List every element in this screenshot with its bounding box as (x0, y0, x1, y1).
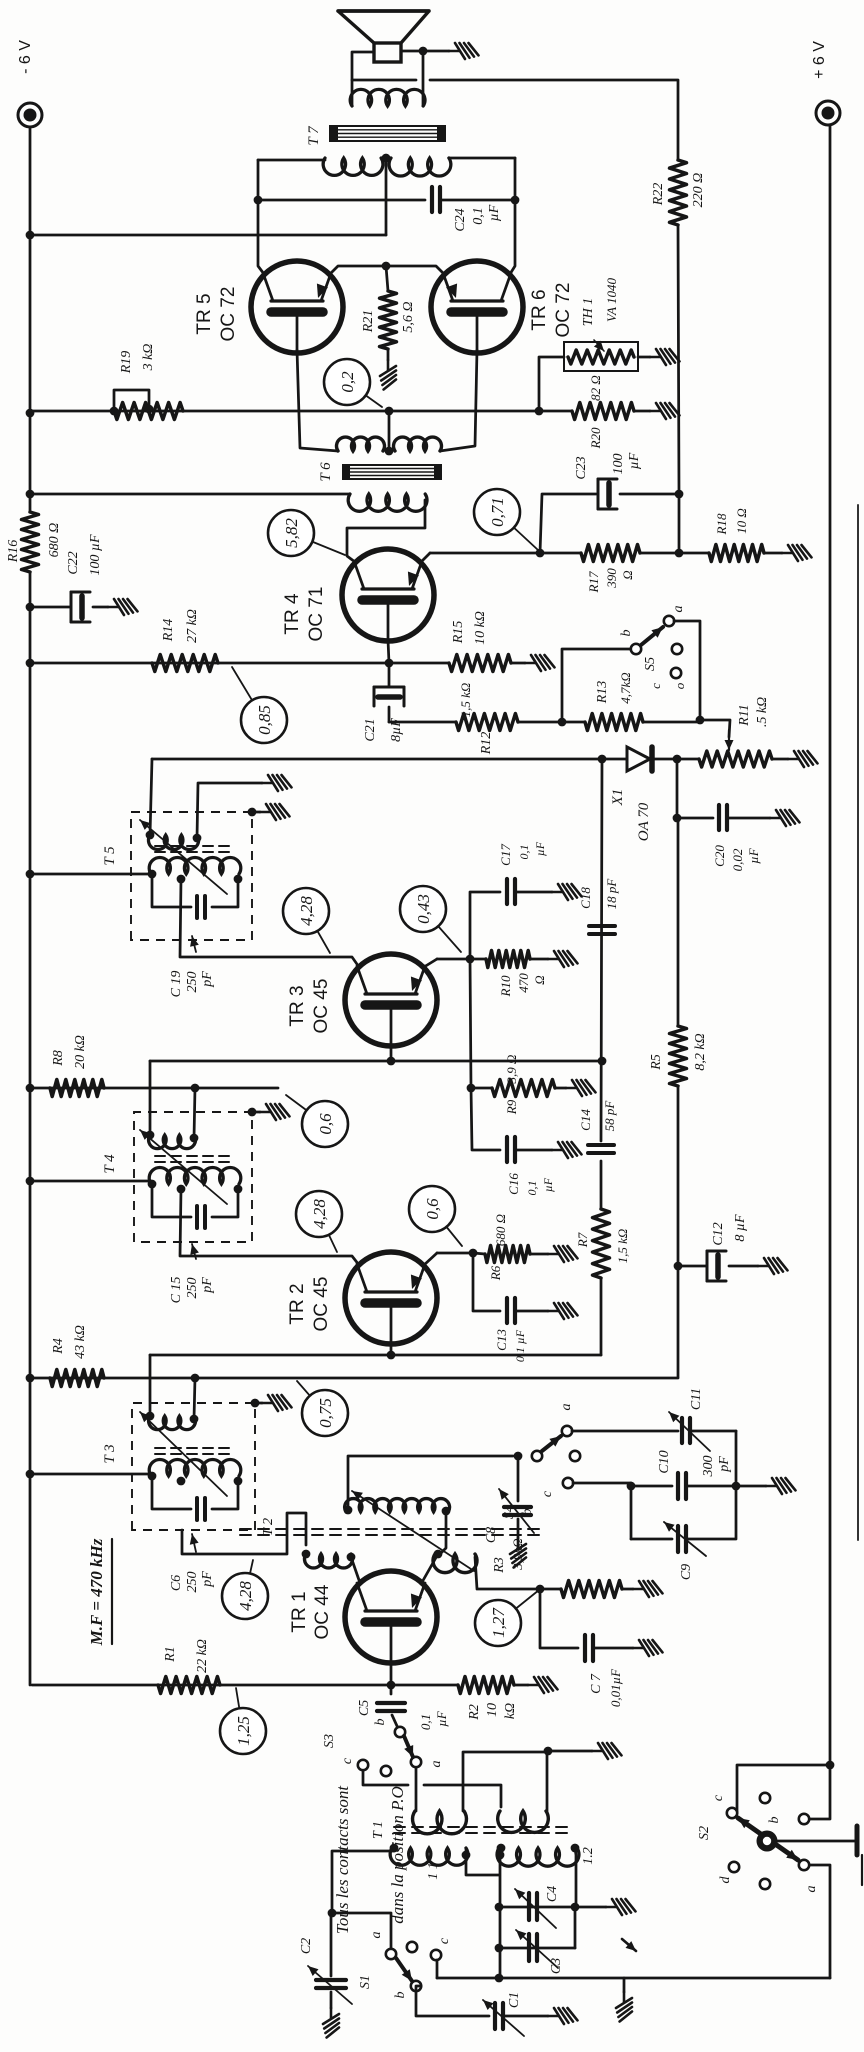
ground on tuner common line (623, 1978, 626, 1992)
svg-text:R6: R6 (488, 1265, 503, 1281)
svg-text:10 kΩ: 10 kΩ (473, 611, 488, 645)
svg-text:C21: C21 (363, 718, 378, 741)
svg-text:R4: R4 (51, 1338, 66, 1355)
svg-text:1.2: 1.2 (581, 1847, 596, 1865)
TR2 base lead (390, 1344, 393, 1355)
transistor TR3 OC45 (345, 954, 437, 1046)
svg-text:kΩ: kΩ (503, 1703, 518, 1719)
wire S3-c down to T1 lower winding (with hop) (363, 1770, 408, 1785)
svg-text:a: a (559, 1404, 574, 1411)
svg-text:82 Ω: 82 Ω (588, 375, 603, 401)
svg-text:10: 10 (485, 1703, 500, 1717)
wire -6V rail to T3 primary (30, 1473, 151, 1476)
T6 secondary upper half (337, 437, 385, 451)
svg-text:C16: C16 (506, 1173, 521, 1195)
capacitor C7 0.01uF (540, 1589, 578, 1648)
svg-text:OC 72: OC 72 (218, 287, 239, 342)
svg-text:5,6 Ω: 5,6 Ω (401, 301, 416, 332)
svg-text:C11: C11 (689, 1388, 704, 1410)
svg-text:T 6: T 6 (318, 462, 334, 482)
svg-text:c: c (648, 683, 663, 689)
svg-text:C3: C3 (549, 1958, 564, 1974)
TR1 collector diagonal to T2 winding (351, 1557, 360, 1583)
svg-text:C9: C9 (679, 1564, 694, 1580)
T3 primary winding (149, 1459, 241, 1476)
svg-text:8 µF: 8 µF (733, 1214, 748, 1242)
trimmer C4 row (499, 1906, 606, 1909)
svg-text:R16: R16 (6, 540, 21, 564)
svg-text:b: b (393, 1992, 408, 1999)
T6 secondary bottom to TR6 base (440, 350, 477, 451)
R11 wiper arrow (728, 730, 730, 750)
svg-text:OC 72: OC 72 (553, 283, 574, 338)
TR6 emitter diagonal (386, 266, 444, 274)
svg-text:250: 250 (185, 972, 200, 993)
meter 0,75 (297, 1381, 325, 1413)
TR4 base bus from rail (32, 662, 389, 665)
svg-text:C4: C4 (545, 1886, 560, 1902)
TR6 collector wire to T7 (510, 158, 515, 274)
svg-text:c: c (437, 1937, 452, 1944)
T5 tuning capacitor C19 (152, 874, 191, 907)
wire T1 lower winding to ground join (547, 1751, 548, 1811)
svg-text:TR 6: TR 6 (529, 289, 550, 330)
svg-text:C2: C2 (299, 1938, 314, 1954)
svg-text:10 Ω: 10 Ω (734, 508, 749, 534)
ground for T1 coupling windings (548, 1750, 592, 1753)
svg-text:3 kΩ: 3 kΩ (141, 344, 156, 372)
capacitor C22 100uF rail decoupling (30, 606, 70, 609)
trimmer C3 row (499, 1947, 575, 1950)
svg-text:R22: R22 (651, 183, 666, 207)
svg-text:C23: C23 (574, 456, 589, 479)
S5-a wire to R13 junction (674, 621, 700, 720)
wire S4-a to C11 (572, 1430, 678, 1433)
T4 primary winding (149, 1167, 241, 1184)
T7 centre tap to -6V rail (385, 158, 388, 235)
T7 primary upper half (323, 158, 383, 175)
resistor R12 1.5k (456, 714, 518, 731)
T5 shield ground (248, 808, 257, 817)
svg-text:µF: µF (434, 1710, 449, 1726)
svg-text:T 4: T 4 (102, 1154, 118, 1174)
TR2 base line vertical (from T3 secondary) (150, 1354, 601, 1357)
svg-text:pF: pF (200, 971, 215, 988)
meter 4,28 TR1 collector (245, 1560, 253, 1596)
svg-text:c: c (711, 1794, 726, 1801)
svg-text:R14: R14 (161, 619, 176, 643)
svg-text:VA 1040: VA 1040 (604, 278, 619, 322)
capacitor C13 0.1uF (473, 1253, 500, 1311)
IF transformer T3 box (132, 1403, 255, 1530)
switch S2 wire to +6V rail (737, 1765, 830, 1813)
AGC bus (R4/R5) (32, 1377, 678, 1380)
svg-text:0,75: 0,75 (316, 1398, 335, 1428)
resistor R3 3.9k (561, 1581, 622, 1598)
svg-text:TR 2: TR 2 (287, 1283, 308, 1324)
svg-text:58 pF: 58 pF (602, 1100, 617, 1132)
T4 tuning capacitor C15 (152, 1184, 191, 1217)
AGC take-off C20 (676, 759, 679, 818)
svg-text:C1: C1 (507, 1992, 522, 2008)
svg-text:C6: C6 (169, 1575, 184, 1591)
T3 secondary top to TR2 base line (149, 1355, 152, 1416)
svg-text:d: d (718, 1876, 733, 1884)
wire T1 1.1 top to C2/S1 node (332, 1848, 394, 1913)
svg-text:o: o (672, 682, 687, 689)
capacitor C5 0.1uF to S3 (390, 1685, 393, 1694)
diode X1 OA70 (627, 747, 650, 771)
svg-text:R7: R7 (575, 1232, 590, 1248)
capacitor C16 0.1uF (471, 1088, 500, 1150)
svg-text:S5: S5 (643, 657, 658, 671)
capacitor C17 0.1uF emitter bypass (470, 892, 500, 959)
T2 feedback winding (433, 1554, 477, 1573)
switch S5 (631, 644, 641, 654)
T5 secondary top to detector line (150, 759, 152, 835)
power rail -6V (top) (29, 572, 32, 1685)
svg-text:C22: C22 (66, 551, 81, 574)
T3 secondary bottom to AGC line (194, 1378, 195, 1419)
svg-text:3,9 Ω: 3,9 Ω (504, 1055, 519, 1085)
svg-text:T 1: T 1 (371, 1821, 386, 1839)
svg-text:Ω: Ω (620, 570, 635, 579)
TR4 base lead (388, 640, 389, 663)
svg-text:18 pF: 18 pF (604, 878, 619, 910)
svg-text:R20: R20 (588, 427, 603, 449)
resistor R10 470 (emitter) (486, 951, 530, 968)
svg-text:a: a (671, 606, 686, 613)
svg-text:µF: µF (487, 204, 502, 221)
T3 core (155, 1453, 232, 1455)
wire -6V rail to T5 primary (30, 873, 151, 876)
TR4 emitter line (421, 553, 430, 562)
resistor R13 4.7k (585, 714, 643, 731)
wire S3-a to T1 upper winding (415, 1766, 418, 1811)
svg-text:b: b (767, 1817, 782, 1824)
svg-text:b: b (619, 630, 634, 637)
wire 1.2 top to tuner common (499, 1855, 502, 1978)
svg-text:+ 6 V: + 6 V (811, 41, 828, 79)
TR5 emitter diagonal (330, 266, 386, 274)
driver transformer T6 core (343, 465, 441, 479)
svg-text:0,6: 0,6 (316, 1113, 335, 1135)
svg-text:0,1: 0,1 (517, 845, 531, 860)
svg-text:.5 kΩ: .5 kΩ (755, 697, 770, 727)
svg-text:0,6: 0,6 (423, 1198, 442, 1220)
svg-text:C13: C13 (494, 1329, 509, 1351)
resistor R7 1.5k (AGC filter) (593, 1209, 610, 1278)
T7 primary lower half (389, 158, 451, 176)
svg-text:1,5 kΩ: 1,5 kΩ (615, 1229, 630, 1264)
svg-text:C 19: C 19 (169, 971, 184, 998)
svg-text:R18: R18 (714, 513, 729, 535)
svg-text:R5: R5 (649, 1054, 664, 1071)
resistor R6 680ohm (emitter) (485, 1246, 530, 1263)
svg-text:22 kΩ: 22 kΩ (195, 1639, 210, 1673)
svg-text:T 5: T 5 (102, 846, 118, 866)
meter 0,43 TR3 emitter (423, 909, 461, 952)
resistor R1 22k (158, 1677, 220, 1694)
svg-text:T 2: T 2 (261, 1518, 276, 1536)
svg-text:470: 470 (516, 973, 531, 993)
capacitor C21 8uF coupling (389, 721, 456, 724)
wire -6V rail to T6 primary (30, 493, 350, 496)
svg-text:C 15: C 15 (169, 1277, 184, 1304)
svg-text:390: 390 (604, 568, 619, 589)
TR1 base lead to bias line (390, 1663, 393, 1685)
svg-text:R15: R15 (451, 621, 466, 645)
R19 preset link (114, 390, 149, 411)
resistor R16 in -6V rail (22, 512, 39, 572)
svg-text:c: c (340, 1757, 355, 1764)
svg-text:S4: S4 (502, 1505, 517, 1519)
svg-text:0,85: 0,85 (255, 705, 274, 735)
capacitor C2 (trimmer) (330, 1913, 333, 1976)
1.2 winding bottom to C4 row (575, 1848, 576, 1907)
svg-text:pF: pF (200, 1571, 215, 1588)
svg-text:a: a (804, 1886, 819, 1893)
svg-text:S2: S2 (697, 1826, 712, 1840)
svg-text:0,43: 0,43 (414, 894, 433, 924)
svg-text:S3: S3 (322, 1734, 337, 1748)
terminal +6V (816, 101, 840, 125)
svg-text:OC 71: OC 71 (306, 587, 327, 642)
T4 shield ground (248, 1108, 257, 1117)
ground R2 (514, 1684, 528, 1687)
switch S2 contact a wire to tuner common (809, 1865, 830, 1978)
svg-text:680 Ω: 680 Ω (47, 523, 62, 558)
T5 primary winding (149, 857, 241, 874)
capacitor C18 18pF (589, 932, 615, 936)
svg-text:TR 4: TR 4 (282, 593, 303, 635)
T4 tuning arrow (140, 1130, 227, 1204)
label C15 250pF with arrow (192, 1244, 196, 1259)
battery (777, 1840, 855, 1843)
meter 1,25 (236, 1688, 243, 1731)
meter 0,2 (347, 382, 382, 407)
svg-text:S1: S1 (358, 1975, 373, 1989)
detector line vertical (152, 758, 627, 761)
svg-text:c: c (540, 1490, 555, 1497)
T6 primary winding (348, 494, 427, 511)
feedback resistor R22 from speaker line (678, 225, 679, 494)
svg-text:b: b (520, 1509, 535, 1516)
transistor TR2 OC45 (345, 1252, 437, 1344)
T2 tuning arrow (352, 1491, 474, 1571)
T6 secondary top to TR5 base (297, 350, 338, 451)
svg-text:250: 250 (185, 1572, 200, 1593)
svg-text:pF: pF (717, 1456, 732, 1473)
meter 4,28 TR2 collector (319, 1214, 337, 1252)
svg-text:1,27: 1,27 (489, 1607, 508, 1638)
resistor R5 8.2k AGC (670, 1026, 687, 1086)
svg-text:0,1: 0,1 (471, 207, 486, 225)
svg-text:C12: C12 (711, 1222, 726, 1245)
svg-text:R10: R10 (498, 975, 513, 997)
svg-text:4,28: 4,28 (310, 1199, 329, 1229)
wire tank top to C8/S4 node (348, 1456, 513, 1510)
capacitor C14 58pF (588, 1151, 614, 1155)
wire T1 upper winding to ground join (463, 1752, 548, 1811)
svg-text:OC 44: OC 44 (312, 1584, 333, 1639)
svg-text:220 Ω: 220 Ω (691, 173, 706, 208)
svg-text:T 7: T 7 (306, 125, 322, 146)
wire -6V rail to T4 primary (30, 1180, 151, 1183)
svg-text:- 6 V: - 6 V (17, 40, 34, 74)
svg-text:4,28: 4,28 (297, 896, 316, 926)
svg-text:R8: R8 (51, 1050, 66, 1067)
svg-text:R17: R17 (586, 571, 601, 593)
svg-text:C8: C8 (484, 1527, 499, 1543)
svg-text:TR 5: TR 5 (194, 293, 215, 334)
resistor R17 390 (581, 545, 640, 562)
TR5 collector wire to T7 (258, 160, 264, 274)
TR3 emitter feedback to R9/C16 (470, 959, 471, 1088)
speaker (374, 43, 401, 62)
meter 0,6 TR2 emitter (432, 1209, 462, 1246)
svg-text:a: a (369, 1932, 384, 1939)
TR2 emitter diagonal to R6 junction (424, 1253, 437, 1265)
svg-text:4,7kΩ: 4,7kΩ (618, 672, 633, 703)
resistor R9 3.9 (492, 1080, 555, 1097)
svg-text:C18: C18 (578, 887, 593, 909)
svg-text:C 7: C 7 (589, 1673, 604, 1694)
svg-text:OA 70: OA 70 (636, 802, 652, 841)
T6 centre tap to bias node (388, 411, 391, 451)
svg-text:3,9kΩ: 3,9kΩ (510, 1538, 525, 1570)
svg-text:0,1: 0,1 (525, 1181, 539, 1196)
T4 secondary winding (149, 1135, 196, 1149)
T1 winding 1.1 (390, 1848, 468, 1865)
resistor R14 27k (152, 655, 218, 672)
wire S1-c to tuner common (436, 1960, 439, 1978)
TR3 collector wire to T5 tap (180, 879, 359, 967)
capacitor C1 (trimmer) (493, 2003, 497, 2029)
TR3 emitter diagonal to junction (424, 959, 437, 967)
svg-text:100: 100 (611, 454, 626, 475)
svg-text:R11: R11 (737, 704, 752, 727)
svg-text:5,82: 5,82 (282, 518, 301, 548)
output transformer T7 core (330, 126, 445, 141)
T7 primary bottom wire (449, 157, 515, 160)
capacitor C11 (trimmer) (680, 1418, 684, 1443)
TR3 base bias line (150, 1060, 602, 1063)
svg-text:M.F = 470 kHz: M.F = 470 kHz (87, 1538, 106, 1646)
R3 / C7 node from T2 feedback winding (475, 1557, 540, 1589)
T3 tuning capacitor C6 (152, 1476, 191, 1509)
svg-text:dans la position P.O: dans la position P.O (388, 1786, 407, 1924)
svg-text:R13: R13 (595, 681, 610, 705)
capacitor C24 0.1uF across primary (258, 199, 425, 202)
svg-text:pF: pF (200, 1277, 215, 1294)
capacitor C9 (trimmer) (631, 1538, 672, 1541)
R12/R13 junction to S5-b (558, 718, 567, 727)
switch S3 (395, 1727, 405, 1737)
page edge line (857, 505, 859, 1540)
svg-text:OC 45: OC 45 (311, 979, 332, 1034)
T4 secondary bottom to R8 bias line (194, 1088, 195, 1138)
T3 tuning arrow (140, 1412, 227, 1496)
T3 secondary winding (149, 1416, 196, 1430)
T7 primary top wire (258, 159, 325, 162)
svg-text:0,2: 0,2 (338, 371, 357, 393)
svg-text:1,5 kΩ: 1,5 kΩ (458, 683, 473, 718)
meter 0,71 TR4 emitter (497, 512, 538, 550)
svg-text:Ω: Ω (532, 975, 547, 984)
IF transformer T5 box (131, 812, 252, 940)
svg-text:C14: C14 (578, 1109, 593, 1131)
svg-text:µF: µF (627, 452, 642, 469)
T3 shield ground (251, 1399, 260, 1408)
svg-text:C10: C10 (657, 1450, 672, 1473)
svg-text:µF: µF (533, 841, 547, 856)
transistor TR1 OC44 (345, 1571, 437, 1663)
svg-text:R12: R12 (479, 732, 494, 756)
meter 5,82 TR4 collector (291, 533, 345, 555)
ground R3 (622, 1588, 633, 1591)
wire S4-c to C9/C10 node (573, 1483, 631, 1485)
svg-text:C17: C17 (498, 844, 513, 866)
svg-text:b: b (373, 1719, 388, 1726)
svg-text:Tous les contacts sont: Tous les contacts sont (333, 1785, 352, 1934)
wire tank bottom to emitter junction (440, 1511, 446, 1554)
TR3 base lead (390, 1046, 393, 1061)
meter 0,85 (232, 667, 264, 720)
svg-text:R3: R3 (492, 1557, 507, 1574)
T5 secondary winding (148, 835, 198, 850)
T2 collector coupling winding (305, 1554, 353, 1568)
T4 secondary top to TR3 base line (149, 1061, 152, 1135)
speaker wires (352, 52, 374, 106)
svg-text:OC 45: OC 45 (311, 1277, 332, 1332)
svg-text:8µF: 8µF (389, 718, 404, 742)
T5 tuning arrow (140, 820, 227, 894)
neutralizing line C14-C18-detector (601, 759, 602, 1141)
svg-text:a: a (429, 1761, 444, 1768)
T2 oscillator tank winding (345, 1499, 450, 1512)
svg-text:0,71: 0,71 (488, 497, 507, 527)
T6 secondary lower half (394, 437, 442, 451)
capacitor C23 100uF across R17 (540, 494, 596, 553)
svg-text:T 3: T 3 (102, 1444, 118, 1463)
resistor R4 43k (50, 1370, 104, 1387)
svg-text:TH 1: TH 1 (581, 298, 596, 326)
T1 coupling winding upper (to S3-a) (413, 1811, 467, 1834)
TR1 collector supply staircase to T3 tap (182, 1513, 306, 1554)
switch S4 (532, 1451, 542, 1461)
T7 secondary (350, 89, 425, 106)
IF transformer T4 box (134, 1112, 252, 1242)
meter 1,27 TR1 emitter (498, 1590, 539, 1623)
bias node line from R19 (32, 410, 539, 413)
capacitor C12 8uF AGC decoupling (674, 1262, 683, 1271)
T5 core (155, 851, 232, 853)
tuner common line (to S2-a) (437, 1977, 830, 1980)
resistor R18 10 (709, 545, 764, 562)
svg-text:1,25: 1,25 (234, 1716, 253, 1746)
antenna transformer T1 core (394, 1832, 570, 1834)
series link 1.1 to 1.2 (466, 1848, 499, 1875)
svg-text:43 kΩ: 43 kΩ (73, 1325, 88, 1359)
TR2 collector wire to T4 tap (180, 1189, 359, 1265)
speaker return ground (423, 50, 449, 53)
svg-text:27 kΩ: 27 kΩ (185, 609, 200, 643)
wire S1-b to C1 (416, 1986, 489, 2016)
T1 coupling winding lower (to S3-c) (498, 1811, 549, 1832)
svg-text:0,1 µF: 0,1 µF (513, 1329, 527, 1362)
meter 4,28 TR3 collector (306, 911, 330, 953)
